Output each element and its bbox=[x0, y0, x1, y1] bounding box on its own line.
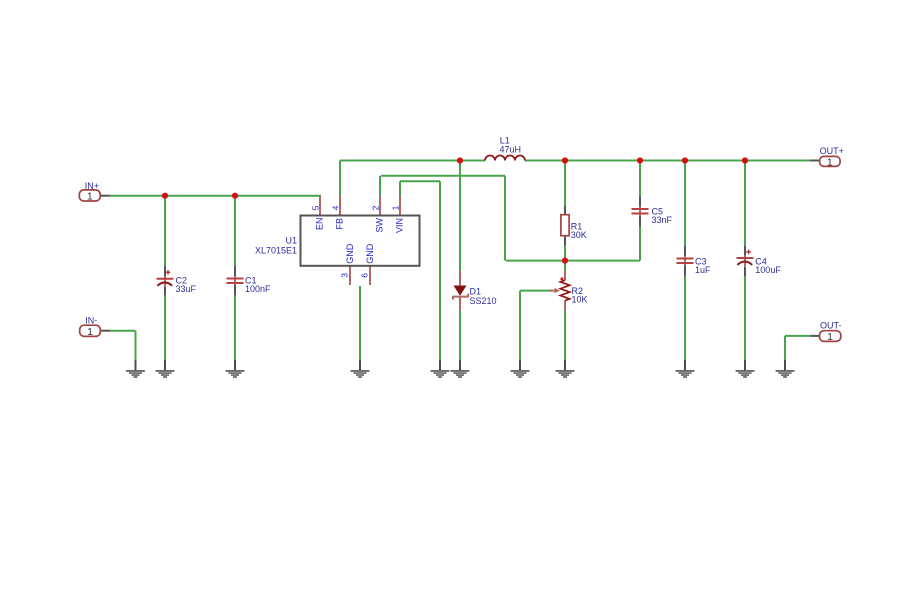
svg-text:100nF: 100nF bbox=[245, 284, 271, 294]
svg-text:OUT-: OUT- bbox=[820, 320, 842, 330]
svg-text:1uF: 1uF bbox=[695, 265, 711, 275]
svg-text:OUT+: OUT+ bbox=[820, 146, 844, 156]
svg-text:10K: 10K bbox=[572, 294, 588, 304]
svg-text:IN-: IN- bbox=[85, 316, 97, 326]
svg-text:5: 5 bbox=[310, 205, 320, 210]
svg-text:33nF: 33nF bbox=[652, 215, 673, 225]
svg-text:1: 1 bbox=[87, 191, 93, 203]
svg-text:1: 1 bbox=[87, 326, 93, 338]
svg-text:SW: SW bbox=[375, 217, 385, 232]
svg-text:VIN: VIN bbox=[395, 218, 405, 233]
svg-text:FB: FB bbox=[335, 218, 345, 230]
svg-text:33uF: 33uF bbox=[176, 284, 197, 294]
svg-text:EN: EN bbox=[315, 217, 325, 230]
svg-text:XL7015E1: XL7015E1 bbox=[255, 245, 297, 255]
svg-text:4: 4 bbox=[330, 205, 340, 210]
svg-text:3: 3 bbox=[339, 273, 349, 278]
svg-text:30K: 30K bbox=[571, 230, 587, 240]
svg-text:6: 6 bbox=[359, 273, 369, 278]
svg-text:100uF: 100uF bbox=[755, 265, 781, 275]
svg-text:U1: U1 bbox=[285, 236, 297, 246]
svg-text:D1: D1 bbox=[470, 286, 482, 296]
svg-text:1: 1 bbox=[827, 156, 833, 168]
svg-text:GND: GND bbox=[345, 243, 355, 264]
svg-text:SS210: SS210 bbox=[470, 296, 497, 306]
svg-text:47uH: 47uH bbox=[500, 145, 522, 155]
svg-text:1: 1 bbox=[827, 331, 833, 343]
svg-text:GND: GND bbox=[365, 243, 375, 264]
svg-text:2: 2 bbox=[370, 205, 380, 210]
svg-text:1: 1 bbox=[390, 205, 400, 210]
